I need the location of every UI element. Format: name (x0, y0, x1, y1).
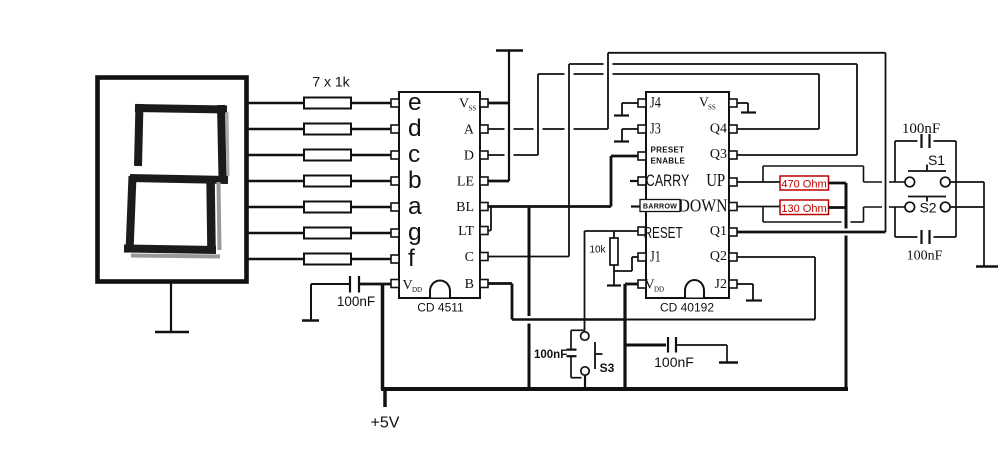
svg-text:b: b (408, 167, 422, 194)
svg-text:100nF: 100nF (654, 354, 694, 370)
svg-text:J1: J1 (650, 249, 661, 266)
svg-text:S2: S2 (919, 200, 936, 216)
svg-text:PRESET: PRESET (651, 146, 685, 155)
svg-text:J4: J4 (650, 95, 661, 112)
svg-text:SS: SS (469, 105, 477, 113)
svg-text:10k: 10k (589, 245, 606, 256)
svg-text:C: C (465, 250, 474, 265)
svg-text:100nF: 100nF (907, 249, 943, 264)
svg-text:f: f (408, 245, 415, 272)
svg-text:a: a (408, 193, 422, 220)
svg-text:Q2: Q2 (710, 249, 727, 264)
svg-text:g: g (408, 219, 422, 246)
svg-text:RESET: RESET (644, 225, 683, 242)
svg-text:BL: BL (456, 200, 474, 215)
svg-text:+5V: +5V (371, 415, 400, 432)
svg-text:CD 40192: CD 40192 (660, 301, 714, 315)
svg-text:100nF: 100nF (902, 121, 940, 137)
svg-text:470 Ohm: 470 Ohm (781, 179, 826, 191)
svg-text:100nF: 100nF (337, 294, 375, 309)
svg-text:DD: DD (412, 286, 422, 294)
svg-text:130 Ohm: 130 Ohm (781, 203, 826, 215)
svg-text:S1: S1 (928, 152, 945, 168)
svg-text:CD 4511: CD 4511 (417, 301, 464, 315)
svg-text:100nF: 100nF (534, 349, 567, 361)
svg-text:CARRY: CARRY (646, 171, 690, 190)
svg-text:Q1: Q1 (710, 224, 727, 239)
svg-text:J3: J3 (650, 121, 661, 138)
svg-text:DD: DD (654, 286, 664, 294)
svg-text:DOWN: DOWN (679, 196, 728, 216)
svg-text:LE: LE (457, 175, 474, 190)
svg-text:e: e (408, 89, 422, 116)
svg-text:BARROW: BARROW (643, 202, 677, 211)
svg-text:d: d (408, 115, 422, 142)
svg-text:S3: S3 (600, 361, 615, 375)
svg-text:J2: J2 (715, 277, 727, 292)
svg-text:SS: SS (708, 104, 716, 112)
svg-text:D: D (464, 149, 474, 164)
svg-text:Q4: Q4 (710, 122, 727, 137)
svg-text:ENABLE: ENABLE (651, 157, 686, 166)
svg-text:A: A (464, 123, 475, 138)
svg-text:UP: UP (706, 170, 725, 190)
svg-text:Q3: Q3 (710, 147, 727, 162)
svg-text:c: c (408, 141, 420, 168)
svg-text:LT: LT (458, 224, 474, 239)
svg-text:B: B (465, 277, 474, 292)
svg-text:7 x 1k: 7 x 1k (312, 74, 350, 90)
